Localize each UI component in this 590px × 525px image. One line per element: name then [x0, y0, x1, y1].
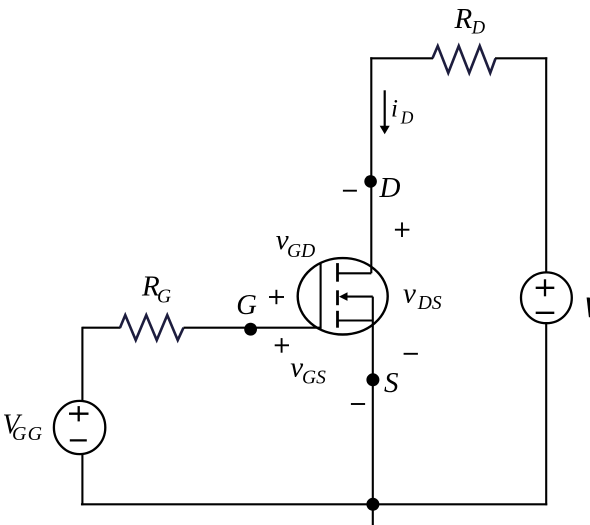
- VGG plus: [69, 406, 89, 421]
- svg-text:GS: GS: [302, 368, 326, 389]
- channel dash drain segment: [336, 263, 339, 282]
- minus of vGS: [351, 403, 365, 405]
- VDD plus: [536, 279, 555, 296]
- svg-text:D: D: [379, 172, 401, 204]
- plus of vGS (near gate): [275, 338, 289, 353]
- gate bar: [320, 262, 322, 328]
- svg-text:GD: GD: [287, 241, 315, 262]
- label VDD (cut off at edge): [587, 298, 590, 318]
- svg-text:GG: GG: [12, 423, 43, 445]
- wire source vertical: [372, 297, 374, 525]
- label vDS: [403, 277, 442, 314]
- wire gate horizontal left of RG: [82, 327, 120, 329]
- drain bar: [338, 272, 372, 274]
- body arrow line: [345, 296, 373, 298]
- label iD: [391, 95, 414, 127]
- wire right vertical lower (VDD to bottom corner): [545, 323, 547, 505]
- svg-text:S: S: [384, 367, 399, 399]
- svg-text:R: R: [454, 3, 473, 35]
- VDD minus: [536, 312, 555, 314]
- node bottom junction dot: [366, 498, 379, 511]
- label RD: [454, 3, 486, 38]
- source VDD circle: [521, 272, 572, 323]
- plus of vDS: [395, 222, 410, 237]
- VGG minus: [70, 439, 87, 441]
- wire left vertical lower (VGG to bottom corner): [81, 454, 83, 506]
- wire right vertical upper (top corner to VDD): [545, 57, 547, 272]
- source bar: [338, 319, 373, 321]
- channel dash middle segment: [336, 290, 339, 305]
- minus of vDS: [404, 353, 418, 355]
- wire left vertical upper (gate wire to VGG): [81, 327, 83, 402]
- svg-text:D: D: [471, 18, 486, 38]
- label vGS: [290, 351, 326, 388]
- wire gate horizontal right of RG: [184, 327, 321, 329]
- resistor RG: [120, 315, 184, 340]
- node S dot: [366, 373, 379, 386]
- svg-text:DS: DS: [417, 293, 442, 314]
- minus of vGD: [343, 190, 357, 192]
- svg-text:D: D: [400, 107, 414, 127]
- transistor circle: [298, 258, 388, 334]
- wire top from RD right to top-right corner: [495, 57, 547, 59]
- svg-text:G: G: [236, 290, 257, 321]
- label VGG: [3, 410, 44, 446]
- svg-text:v: v: [403, 277, 416, 309]
- source VGG circle: [54, 401, 105, 454]
- node G dot: [244, 323, 257, 336]
- wire top from drain branch to RD left: [370, 57, 433, 59]
- node D dot: [364, 175, 377, 188]
- resistor RD: [433, 46, 496, 73]
- label RG: [141, 271, 171, 308]
- label vGD: [276, 224, 315, 262]
- channel dash source segment: [336, 311, 339, 328]
- wire bottom horizontal: [81, 503, 547, 505]
- wire drain vertical: [370, 57, 372, 273]
- body arrowhead: [339, 292, 348, 301]
- plus of vGD (near gate): [269, 290, 284, 304]
- svg-text:G: G: [157, 287, 171, 308]
- svg-text:i: i: [391, 95, 398, 122]
- current arrow iD: [380, 90, 390, 134]
